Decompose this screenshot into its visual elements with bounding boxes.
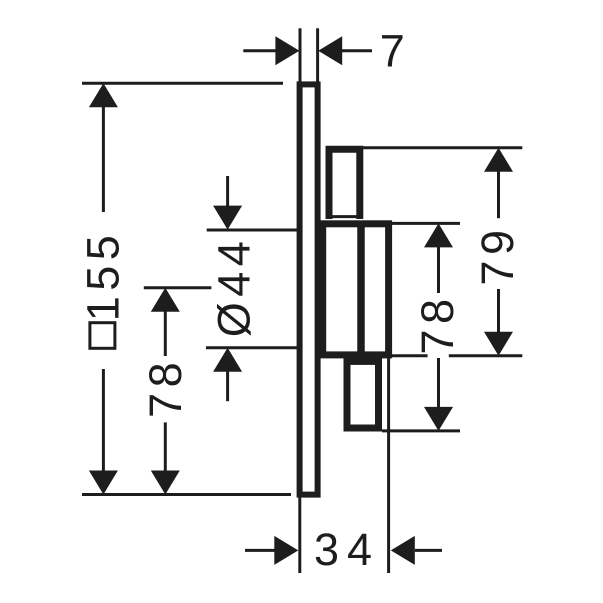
svg-text:78: 78 (140, 357, 191, 418)
svg-text:79: 79 (472, 224, 523, 285)
svg-text:Ø44: Ø44 (209, 236, 260, 338)
svg-text:78: 78 (412, 293, 463, 354)
svg-text:7: 7 (380, 25, 411, 76)
svg-text:155: 155 (78, 230, 129, 322)
svg-text:34: 34 (314, 524, 380, 575)
